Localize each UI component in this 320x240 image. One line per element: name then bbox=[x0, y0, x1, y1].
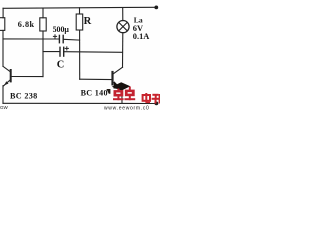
lamp La top lead bbox=[122, 8, 124, 21]
wire R bottom lead down to T2 base corner bbox=[79, 30, 81, 79]
capacitor C right wire (to lamp/T2 collector node) bbox=[64, 51, 122, 54]
wire left rail middle (R1 to T1 collector) bbox=[2, 30, 4, 66]
transistor T1 collector diagonal bbox=[3, 66, 10, 72]
svg-text:www.eeworm.c0: www.eeworm.c0 bbox=[104, 105, 150, 110]
wire T2 emitter lead to ground rail bbox=[121, 89, 123, 103]
capacitor C left wire bbox=[43, 51, 59, 53]
wire T1 base lead (horizontal) bbox=[11, 76, 43, 78]
capacitor C1 500u plates bbox=[58, 35, 60, 42]
lamp La cross diagonal 1 bbox=[119, 22, 127, 30]
svg-text:R: R bbox=[84, 16, 92, 27]
capacitor C1 right wire (to R lead) bbox=[64, 38, 80, 41]
resistor R top lead bbox=[79, 8, 81, 14]
wire 6.8k bottom lead / vertical base bus x=43 bbox=[42, 31, 44, 77]
wire bottom ground rail bbox=[3, 102, 155, 104]
transistor T1 emitter diagonal bbox=[4, 80, 11, 86]
resistor R body bbox=[76, 14, 83, 30]
wire T2 base lead (horizontal) bbox=[80, 78, 112, 80]
resistor 6.8k body bbox=[40, 18, 46, 31]
watermark: red partial character at right edge bbox=[159, 94, 160, 104]
svg-text:6.8k: 6.8k bbox=[18, 20, 35, 29]
svg-text:0.1A: 0.1A bbox=[133, 32, 150, 41]
svg-text:500μ: 500μ bbox=[53, 25, 70, 34]
transistor T2 emitter arrowhead bbox=[113, 81, 121, 89]
capacitor C1 polarity plus sign bbox=[53, 35, 56, 38]
wire node-A branch (left rail to base network, y=39) bbox=[3, 38, 43, 40]
svg-text:BC 238: BC 238 bbox=[10, 92, 38, 101]
lamp La cross diagonal 2 bbox=[119, 22, 127, 30]
resistor R1 (left edge, box partly cut off) bbox=[0, 18, 5, 31]
node: positive supply terminal dot bbox=[154, 6, 158, 10]
lamp La bulb circle bbox=[117, 21, 129, 33]
watermark: red characters dian-zi bbox=[143, 93, 160, 104]
node: negative supply terminal dot bbox=[155, 102, 159, 106]
transistor T2 emitter diagonal bbox=[113, 82, 122, 89]
lamp La bottom lead to T2 collector bbox=[122, 33, 124, 68]
svg-text:GW: GW bbox=[0, 105, 9, 110]
wire left rail lower (T1 emitter to ground rail) bbox=[2, 86, 4, 104]
capacitor C1 500u left wire bbox=[43, 38, 59, 40]
watermark: red character bug 1 bbox=[113, 89, 124, 101]
svg-text:BC 140: BC 140 bbox=[81, 88, 108, 97]
transistor T1 base bar bbox=[10, 70, 12, 81]
transistor T1 emitter arrowhead bbox=[4, 81, 8, 85]
capacitor C polarity plus sign bbox=[65, 47, 68, 50]
transistor T2 collector diagonal bbox=[113, 67, 123, 74]
capacitor C plates bbox=[59, 47, 61, 56]
wire left rail upper (supply to R1) bbox=[2, 8, 4, 17]
svg-text:C: C bbox=[57, 59, 65, 70]
transistor T2 base bar bbox=[111, 72, 113, 84]
watermark: dark graduation-cap of bug logo bbox=[106, 82, 130, 94]
resistor 6.8k top lead bbox=[42, 8, 44, 18]
watermark: red character bug 2 bbox=[124, 87, 135, 101]
wire top supply rail bbox=[3, 7, 155, 8]
